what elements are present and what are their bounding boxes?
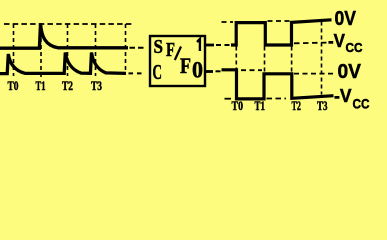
wire: C input waveform (bottom-left trace, spikes at T0,T2,T3): [0, 53, 126, 74]
svg-text:T1: T1: [36, 78, 46, 93]
dashed vertical T2 (right block): [291, 47, 293, 73]
dashed vertical T3 (left block): [95, 24, 97, 76]
wire: dashed -Vcc reference (output 1, after T2): [294, 42, 327, 45]
svg-text:T0: T0: [8, 78, 19, 93]
dashed vertical T3 (right block): [321, 22, 323, 95]
wire: output 1 stub: [205, 44, 214, 47]
wire: dashed 0V reference (output 1, T1-T2): [268, 20, 290, 22]
svg-text:CC: CC: [346, 41, 363, 55]
flip-flop U1 box: [150, 36, 205, 86]
svg-text:S: S: [154, 37, 164, 58]
svg-text:0V: 0V: [338, 60, 362, 83]
wire: dashed link from S trace to flip-flop S input: [130, 47, 147, 49]
wire: dashed 0V reference (output 0, after T2): [294, 73, 336, 75]
svg-text:T1: T1: [255, 98, 266, 113]
dashed vertical right edge of left block: [125, 24, 127, 72]
svg-text:T2: T2: [292, 98, 302, 113]
wire: dashed 0V reference (output 0, T0-T1): [241, 69, 262, 71]
svg-text:-V: -V: [328, 31, 345, 51]
dashed vertical T0 (right block): [235, 47, 237, 70]
wire: dashed -Vcc reference (output 0, left of T0): [225, 98, 232, 100]
dashed vertical T1 (left block): [40, 24, 42, 77]
wire: S input waveform (top-left trace with spike at T1): [0, 23, 128, 48]
wire: dashed link from C trace to flip-flop C input: [129, 72, 143, 74]
svg-text:CC: CC: [353, 96, 370, 111]
svg-text:-V: -V: [334, 86, 352, 106]
wire: output 0 stub: [205, 70, 213, 73]
wire: dashed -Vcc reference (output 0, T1-T2): [267, 98, 287, 100]
svg-text:C: C: [153, 60, 163, 84]
wire: dashed 0V reference (output 1, left of T0): [222, 21, 234, 23]
svg-text:T2: T2: [62, 78, 73, 93]
svg-text:T3: T3: [91, 78, 102, 93]
dashed vertical T2 (left block): [67, 24, 69, 76]
wire: dashed output 0 link: [216, 70, 222, 72]
svg-text:0: 0: [192, 57, 203, 82]
wire: dashed output 1 link: [216, 44, 233, 46]
svg-text:T3: T3: [317, 98, 328, 113]
svg-text:F: F: [180, 53, 191, 78]
dashed vertical T1 (right block): [264, 47, 266, 73]
svg-text:T0: T0: [232, 98, 244, 113]
svg-text:F: F: [166, 40, 175, 61]
dashed vertical T0 (left block): [13, 24, 15, 76]
dashed top border of left timing box: [4, 23, 133, 25]
wire: output 0 square wave: [222, 70, 334, 99]
pin 1 label: [197, 39, 200, 51]
wire: output 1 square wave: [231, 20, 332, 45]
svg-text:0V: 0V: [335, 7, 357, 30]
